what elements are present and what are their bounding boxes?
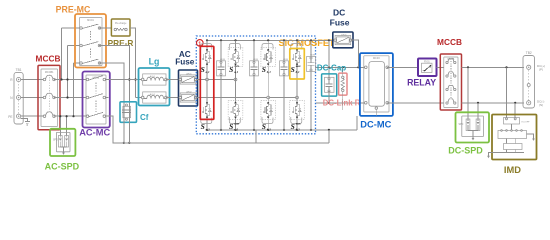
highlight red box leg1	[200, 46, 214, 119]
svg-text:AF02: AF02	[186, 91, 192, 94]
wire DC-MC minus out	[387, 102, 444, 104]
label S_b_2 leg4	[291, 121, 301, 131]
svg-text:I/O-OFF: I/O-OFF	[522, 122, 531, 124]
svg-text:PRE-MC: PRE-MC	[56, 4, 91, 14]
wire DC fuse out	[351, 40, 359, 67]
svg-text:SiC MOSFET: SiC MOSFET	[279, 38, 336, 48]
svg-text:MC01: MC01	[87, 19, 94, 22]
wire Lg to AC fuse row1	[166, 79, 180, 81]
svg-text:CDM: CDM	[220, 59, 225, 61]
transistor Sa1 leg1 top	[202, 49, 211, 65]
svg-text:S: S	[201, 122, 205, 131]
surge protector DC-SPD	[456, 112, 490, 142]
label AC-SPD	[45, 162, 80, 172]
transistor Sb2 leg3 bottom	[263, 102, 272, 118]
contactor PRE-MC	[75, 14, 106, 68]
label MCCB (input breaker)	[36, 54, 61, 64]
svg-text:MC03: MC03	[373, 57, 380, 60]
svg-text:aux: aux	[296, 121, 301, 125]
junction DC- out taps	[477, 102, 516, 104]
wire AC-MC pole2 out stub	[105, 97, 108, 99]
svg-text:Fuse: Fuse	[175, 58, 195, 67]
wire DC+ out	[462, 66, 525, 68]
svg-text:IMD: IMD	[504, 165, 521, 175]
transistor Sb1 leg3 top	[263, 49, 272, 65]
junction phase-b taps	[267, 96, 299, 99]
svg-text:b,1: b,1	[296, 70, 300, 74]
cell outline dashed x297	[290, 101, 305, 120]
label S_a_2 leg2	[229, 121, 239, 131]
contactor AC-MC	[83, 72, 110, 128]
filter capacitor Cf	[120, 102, 137, 123]
SiC MOSFET power module box	[196, 36, 315, 134]
wire MCCB1 out row1	[54, 79, 89, 81]
transistor Sb1 leg4 top	[292, 49, 301, 65]
wire riser line1 to PRE-MC pole1	[62, 28, 83, 80]
svg-text:TB1: TB1	[16, 68, 22, 72]
svg-text:b,2: b,2	[267, 127, 271, 131]
label MCCB (output breaker)	[437, 37, 462, 47]
label IMD	[504, 165, 521, 175]
wire input row2	[21, 97, 45, 99]
input terminal block TB1	[14, 68, 23, 124]
svg-text:MCCB1: MCCB1	[45, 71, 54, 74]
transistor Sa2 leg1 bottom	[202, 102, 211, 118]
wire Cf pins	[124, 103, 130, 143]
highlight yellow box leg4 top	[290, 49, 305, 80]
wire DC- out	[462, 102, 525, 104]
wire bottom rail	[207, 116, 357, 130]
wire input row1	[21, 79, 45, 81]
label RELAY	[407, 77, 436, 87]
junction riser2	[66, 78, 68, 98]
gate hook bottom leg3	[262, 117, 273, 123]
wire PRE-R out riser to line b	[130, 28, 143, 98]
label DC-MC	[360, 120, 391, 130]
cell outline dashed x235.5	[228, 48, 243, 120]
wire PRE-MC pole1 out to PRE-R	[99, 27, 111, 29]
svg-text:aux: aux	[296, 64, 301, 68]
svg-text:S: S	[291, 122, 295, 131]
junction DC- taps	[328, 102, 330, 104]
ground at input	[21, 119, 30, 125]
contactor DC-MC	[360, 53, 393, 116]
svg-text:b,1: b,1	[267, 70, 271, 74]
junction DC+ out taps	[467, 66, 508, 68]
gate hook top leg4	[291, 44, 302, 50]
gate hook top leg1	[201, 44, 212, 50]
output terminal block TB2	[523, 51, 535, 108]
label S_b_1 leg3	[262, 65, 271, 74]
svg-text:a,2: a,2	[206, 127, 210, 131]
transistor Sb2 leg4 bottom	[292, 102, 301, 118]
svg-text:DF01: DF01	[341, 34, 347, 36]
junction top bus taps	[206, 39, 330, 41]
wire DC-MC to RELAY	[387, 66, 418, 68]
wire leg4 verticals	[296, 40, 298, 130]
label PRE-MC	[56, 4, 91, 14]
svg-text:PE: PE	[8, 115, 12, 119]
junction DC+ taps	[328, 66, 360, 68]
junction phase-a taps	[206, 78, 237, 81]
svg-text:a,2: a,2	[234, 127, 238, 131]
svg-text:a,1: a,1	[206, 70, 210, 74]
relay RELAY	[418, 59, 437, 77]
svg-text:S: S	[291, 65, 295, 74]
wire AC-MC pole1 out (line a)	[105, 79, 143, 81]
label DC-Link R	[323, 98, 361, 107]
svg-text:AF01: AF01	[186, 73, 192, 76]
wire PRE-MC pole3 out riser	[99, 63, 124, 143]
label Cf	[140, 113, 149, 122]
wire leg2 verticals	[235, 40, 237, 130]
svg-text:CDM: CDM	[253, 59, 258, 61]
svg-text:DC-SPD: DC-SPD	[448, 146, 483, 156]
precharge resistor PRE-R	[111, 19, 130, 36]
wire MCCB1 out row3	[54, 115, 89, 117]
gate hook top leg3	[262, 44, 273, 50]
svg-text:DC-MC: DC-MC	[360, 120, 391, 130]
capacitor C3 (dc-link)	[280, 40, 289, 130]
output labels	[537, 64, 545, 107]
wire RELAY to MCCB2	[437, 66, 445, 68]
svg-text:TB2: TB2	[526, 51, 532, 55]
surge protector AC-SPD	[50, 129, 75, 156]
svg-text:aux: aux	[234, 121, 239, 125]
svg-text:SPD: SPD	[53, 140, 58, 142]
label PRE-R	[108, 38, 134, 48]
gate hook top leg2	[229, 44, 240, 50]
wire DC+ line	[316, 66, 366, 68]
svg-text:ACL2: ACL2	[150, 93, 156, 96]
label S_a_1 leg2	[229, 64, 239, 74]
svg-text:Fuse: Fuse	[330, 17, 350, 27]
insulation monitor IMD	[487, 115, 536, 160]
svg-text:AC-MC: AC-MC	[79, 128, 110, 138]
wire leg3 verticals	[267, 40, 269, 130]
label SiC MOSFET	[279, 38, 336, 48]
svg-text:Cf: Cf	[140, 113, 149, 122]
svg-text:CDM: CDM	[310, 55, 315, 57]
input phase labels	[8, 78, 13, 119]
svg-text:ACL1: ACL1	[150, 75, 156, 78]
wire DC-Cap riser	[328, 40, 330, 79]
svg-text:S: S	[229, 122, 233, 131]
breaker MCCB2	[440, 54, 461, 110]
label AC-MC	[79, 128, 110, 138]
inductor Lg	[139, 68, 170, 106]
svg-text:Pre-charge: Pre-charge	[115, 22, 127, 25]
svg-text:MCCB: MCCB	[36, 54, 61, 64]
junction riser-B on line1	[128, 78, 130, 80]
label S_a_2 leg1	[201, 122, 210, 131]
wire rail-PE drops	[256, 130, 329, 143]
svg-text:DC-Cap: DC-Cap	[317, 63, 346, 72]
svg-text:DC-Link R: DC-Link R	[323, 98, 361, 107]
fuse block AC Fuse	[179, 70, 198, 106]
svg-text:SPD: SPD	[459, 124, 464, 126]
capacitor C1 (dc-link)	[217, 40, 226, 130]
wire riser line2 to PRE-MC pole2	[68, 46, 83, 98]
marker circled-1	[197, 40, 204, 48]
wire AC-SPD feeds	[60, 116, 66, 135]
fuse block DC Fuse	[333, 32, 353, 48]
wire riser line3 to PRE-MC pole3	[74, 63, 83, 116]
label DC-SPD	[448, 146, 483, 156]
gate hook bottom leg2	[229, 117, 240, 123]
label S_b_1 leg4	[291, 64, 301, 74]
junction riser3	[72, 115, 74, 117]
wire AC-MC pole3 out to PE bus	[105, 116, 329, 143]
gate hook bottom leg4	[291, 117, 302, 123]
resistor DC-Link R	[339, 67, 347, 110]
wire DC-SPD feeds	[468, 67, 478, 119]
capacitor DC-Cap	[322, 74, 337, 103]
svg-text:(N): (N)	[539, 103, 543, 107]
wire DC+ top bus	[207, 39, 333, 41]
junction Cf pins on PE bus	[123, 142, 131, 144]
transistor Sa1 leg2 top	[230, 49, 239, 65]
svg-text:RELAY: RELAY	[407, 77, 436, 87]
transistor Sa2 leg2 bottom	[230, 102, 239, 118]
svg-text:S: S	[262, 122, 266, 131]
label Lg	[149, 57, 160, 67]
cell outline dashed x268.2	[261, 48, 276, 120]
junction riser-C on line1	[134, 78, 136, 80]
svg-text:DC: DC	[333, 7, 345, 17]
label AC Fuse	[175, 50, 195, 67]
wire IMD feeds	[507, 67, 516, 118]
svg-text:CDM: CDM	[283, 59, 288, 61]
svg-text:AC-SPD: AC-SPD	[45, 162, 80, 172]
wire PRE-MC pole2 out riser	[99, 46, 129, 143]
wire Lg to AC fuse row2	[166, 97, 180, 99]
wire input row3	[21, 115, 45, 117]
junction riser1	[60, 78, 62, 80]
label DC-Cap	[317, 63, 346, 72]
breaker MCCB1	[38, 65, 60, 129]
svg-text:a,1: a,1	[234, 70, 238, 74]
label DC Fuse	[330, 7, 350, 27]
svg-text:Lg: Lg	[149, 57, 160, 67]
svg-text:b,2: b,2	[296, 127, 300, 131]
svg-text:MCCB: MCCB	[437, 37, 462, 47]
wire phase-b	[196, 97, 297, 99]
capacitor C4 (dc-link)	[307, 40, 316, 130]
svg-text:(P): (P)	[539, 68, 543, 72]
capacitor C2 (dc-link)	[250, 40, 259, 130]
label S_a_1 leg1	[201, 65, 210, 74]
junction AC-SPD taps	[59, 115, 67, 117]
wire phase-a	[196, 79, 236, 81]
label S_b_2 leg3	[262, 122, 271, 131]
junction bottom rail taps	[206, 129, 330, 131]
svg-text:S: S	[201, 65, 205, 74]
gate hook bottom leg1	[201, 117, 212, 123]
wire DC- line	[316, 102, 365, 104]
wire leg1 verticals	[206, 40, 208, 130]
wire MCCB1 out row2	[54, 97, 89, 99]
